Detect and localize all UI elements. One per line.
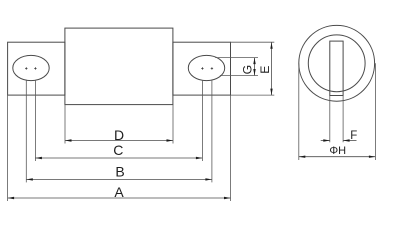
- svg-text:F: F: [350, 130, 357, 142]
- extension line A left: [7, 95, 9, 201]
- inner circle (end view): [308, 35, 365, 92]
- svg-text:B: B: [115, 164, 124, 180]
- extension line D right: [172, 105, 174, 144]
- right terminal tab: [173, 42, 231, 95]
- left terminal tab: [8, 42, 65, 95]
- dimension E: [258, 42, 273, 95]
- svg-text:ΦH: ΦH: [329, 145, 346, 157]
- extension line D left: [64, 105, 66, 144]
- dimension PhiH: [299, 145, 376, 158]
- dimension G: [241, 58, 256, 76]
- dimension F: [321, 130, 358, 142]
- svg-text:E: E: [258, 66, 272, 74]
- dimension D: [65, 127, 173, 143]
- extension line F left: [329, 96, 331, 143]
- terminal blade slot: [330, 41, 343, 95]
- center mark right-inner: [201, 67, 203, 69]
- extension line F right: [342, 96, 344, 143]
- center mark right-outer: [211, 67, 213, 69]
- extension line E top: [231, 41, 275, 43]
- svg-text:D: D: [114, 127, 124, 143]
- extension line A right: [230, 95, 232, 201]
- dimension C: [35, 142, 202, 159]
- extension line E bottom: [231, 94, 275, 96]
- center mark left-inner: [34, 67, 36, 69]
- extension line G bottom: [220, 75, 258, 77]
- svg-text:G: G: [241, 65, 255, 74]
- svg-text:A: A: [114, 184, 124, 200]
- outer circle (end view): [299, 25, 375, 101]
- extension line B left: [25, 80, 27, 183]
- svg-text:C: C: [113, 142, 123, 158]
- extension line G top: [215, 57, 258, 59]
- extension line H left: [298, 63, 300, 160]
- dimension B: [26, 164, 212, 181]
- dimension A: [8, 184, 231, 200]
- extension line H right: [374, 63, 376, 160]
- center mark left-outer: [25, 67, 27, 69]
- extension line C right: [201, 80, 203, 161]
- extension line B right: [211, 80, 213, 183]
- left oval hole: [13, 55, 49, 80]
- right oval hole: [188, 55, 224, 80]
- extension line C left: [34, 80, 36, 161]
- fuse body (side view): [65, 28, 173, 105]
